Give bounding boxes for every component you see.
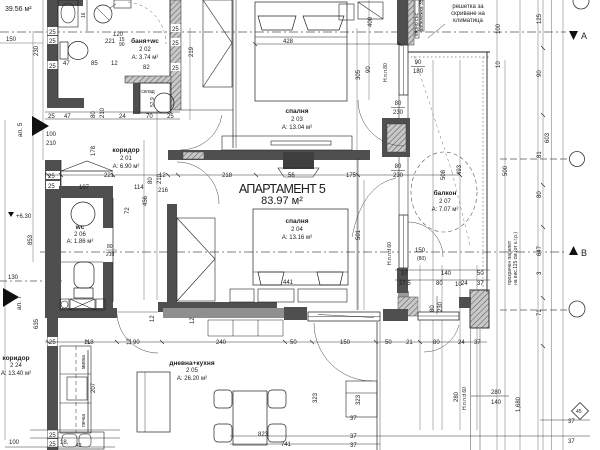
dim row south y344 <box>406 340 481 346</box>
svg-text:24: 24 <box>461 281 468 287</box>
hall outlines <box>60 160 62 186</box>
wall left of wc <box>45 160 61 312</box>
wall below window right <box>397 268 408 293</box>
svg-text:25: 25 <box>172 41 179 47</box>
svg-text:балкон: балкон <box>434 189 457 197</box>
svg-text:климатица: климатица <box>453 18 483 24</box>
kitchen cabinet labels rotated <box>81 355 87 427</box>
svg-text:100: 100 <box>9 440 20 446</box>
storage boiler circle <box>154 93 174 113</box>
svg-text:100: 100 <box>496 23 502 34</box>
svg-text:80: 80 <box>436 281 443 287</box>
svg-text:210: 210 <box>100 107 106 118</box>
svg-text:24: 24 <box>458 340 465 346</box>
svg-text:635: 635 <box>34 318 40 329</box>
svg-text:ап. 7: ап. 7 <box>16 295 23 310</box>
grid line A dashed <box>0 31 566 33</box>
balcony dashed leaders <box>414 56 452 172</box>
bed bedroom1 <box>255 2 347 101</box>
wc top wall <box>59 186 113 198</box>
svg-text:114: 114 <box>134 185 144 191</box>
svg-text:400: 400 <box>368 16 374 27</box>
label hall 224 <box>1 355 31 377</box>
svg-text:80: 80 <box>395 101 402 107</box>
svg-text:АПАРТАМЕНТ 5: АПАРТАМЕНТ 5 <box>239 182 326 196</box>
svg-text:2 01: 2 01 <box>120 156 132 162</box>
svg-text:37: 37 <box>350 434 357 440</box>
label wc <box>67 224 94 245</box>
svg-text:2 24: 2 24 <box>10 363 22 369</box>
east wall gap edge lines <box>399 95 408 215</box>
svg-text:39.56 м²: 39.56 м² <box>5 6 32 13</box>
entrance door leaf triangle <box>61 161 113 171</box>
hatch beside it <box>408 0 414 45</box>
svg-text:90: 90 <box>366 66 372 73</box>
svg-text:218: 218 <box>222 173 233 179</box>
svg-text:A: 3.74 м²: A: 3.74 м² <box>132 55 159 61</box>
svg-text:125: 125 <box>537 13 543 24</box>
chair 2 <box>268 390 286 408</box>
svg-text:501: 501 <box>356 229 362 240</box>
balcony door window bedroom1 <box>399 45 408 95</box>
living room south window <box>308 312 380 321</box>
bedroom1 balcony door arc <box>358 100 404 146</box>
storage room outline <box>140 83 171 113</box>
dim row y188 <box>79 185 169 194</box>
label bedroom2 <box>282 218 312 241</box>
svg-text:80: 80 <box>395 164 402 170</box>
bathroom room outline <box>57 0 59 98</box>
svg-text:wc: wc <box>75 224 85 231</box>
chair 1 <box>214 390 232 408</box>
door label 100/210 <box>46 132 57 147</box>
dark block in bottom wall <box>284 307 307 320</box>
svg-text:280: 280 <box>491 390 502 396</box>
sofa living room <box>137 372 170 432</box>
svg-text:230: 230 <box>438 301 444 312</box>
wardrobe bedroom2 <box>177 218 215 301</box>
tick marks <box>46 42 545 348</box>
svg-text:83.97 м²: 83.97 м² <box>261 195 303 207</box>
bedroom1 right exterior wall top <box>397 0 408 45</box>
svg-text:25: 25 <box>49 39 56 45</box>
svg-text:508: 508 <box>441 169 447 180</box>
wc toilet <box>74 262 94 298</box>
svg-text:1,680: 1,680 <box>516 396 522 412</box>
wc door 80/210 <box>148 173 163 184</box>
svg-text:219: 219 <box>189 46 195 57</box>
svg-text:2 02: 2 02 <box>139 47 151 53</box>
svg-text:21: 21 <box>406 340 413 346</box>
elevation diamond bottom right <box>572 403 589 420</box>
wall left of bathroom <box>47 0 58 98</box>
svg-text:230: 230 <box>34 45 40 56</box>
dining table <box>233 391 267 445</box>
grid bubble top right <box>573 0 589 9</box>
svg-text:71: 71 <box>537 309 543 316</box>
balcony dashed circle <box>411 152 477 232</box>
kitchen counter along top wall living room <box>208 320 283 336</box>
svg-text:A: 1.86 м²: A: 1.86 м² <box>67 239 94 245</box>
svg-text:207: 207 <box>91 382 97 393</box>
svg-text:140: 140 <box>441 271 452 277</box>
TV stand trapezoid bedroom2 <box>278 168 319 177</box>
window label 80/230 top <box>391 101 405 116</box>
grid bubble lower right <box>569 301 585 317</box>
svg-text:323: 323 <box>356 394 362 405</box>
svg-text:603: 603 <box>545 132 551 143</box>
wall notch labels <box>48 27 58 70</box>
living room left edge (kitchen counter line) <box>87 350 89 432</box>
rotated window label 80/230 <box>430 296 444 314</box>
svg-text:56: 56 <box>288 173 295 179</box>
entrance arrow ap.5 <box>17 116 49 137</box>
bedroom2 window door arc into room <box>352 178 396 237</box>
level mark +6.30 <box>8 212 32 220</box>
nightstand right of bed1 <box>339 4 354 20</box>
svg-text:A: 13.16 м²: A: 13.16 м² <box>282 235 312 241</box>
bathroom sink counter <box>58 0 78 27</box>
label bedroom1 <box>282 108 312 131</box>
wall block middle right <box>382 118 410 157</box>
balcony slab top edge <box>408 51 490 53</box>
svg-text:85: 85 <box>91 61 98 67</box>
svg-text:230: 230 <box>393 110 404 116</box>
axis dash to circle 2 <box>500 309 569 311</box>
svg-text:500: 500 <box>503 165 509 176</box>
svg-text:забележка 35: забележка 35 <box>419 0 425 31</box>
svg-text:50: 50 <box>477 271 484 277</box>
bathroom boiler circle <box>94 5 112 23</box>
svg-text:18,: 18, <box>60 440 69 446</box>
wall between bedroom1 and hall (left piece) <box>168 150 204 160</box>
bathroom right wall hatched <box>170 0 181 110</box>
bench under bed2 <box>258 289 294 302</box>
svg-text:+6.30: +6.30 <box>16 214 32 220</box>
bedroom1 outline <box>232 0 234 148</box>
svg-text:2 07: 2 07 <box>439 199 451 205</box>
hall door arc to bedroom2 <box>177 162 219 204</box>
kitchen sink unit bottom <box>58 432 104 449</box>
svg-text:10: 10 <box>496 61 502 68</box>
svg-text:80: 80 <box>107 244 113 250</box>
svg-text:441: 441 <box>283 280 294 286</box>
bedroom2 window to balcony <box>399 215 408 268</box>
svg-text:221: 221 <box>104 173 115 179</box>
svg-text:12: 12 <box>127 338 133 345</box>
marker triangle A <box>569 31 587 41</box>
svg-text:323: 323 <box>313 392 319 403</box>
entrance door arc <box>117 314 158 353</box>
svg-text:25: 25 <box>48 184 55 190</box>
bottom wall of hall left part <box>45 308 117 318</box>
svg-text:на вис.115 см (от к.г.р.): на вис.115 см (от к.г.р.) <box>513 232 519 285</box>
svg-text:баня+wc: баня+wc <box>131 37 159 45</box>
dim row balcony y284 <box>399 281 484 288</box>
svg-text:178: 178 <box>91 145 97 156</box>
storage room left wall <box>133 83 140 114</box>
small rect next to bench <box>230 289 254 302</box>
svg-text:спалня: спалня <box>285 218 308 225</box>
svg-text:12: 12 <box>150 315 156 322</box>
TV block on wall <box>283 152 314 169</box>
bed bedroom2 <box>253 209 348 285</box>
svg-text:72: 72 <box>125 207 131 214</box>
svg-text:16: 16 <box>81 12 87 18</box>
window label 80/230 mid <box>391 164 405 179</box>
svg-text:B: B <box>581 248 587 258</box>
living room top edge under wall <box>117 311 158 313</box>
dim row y116 <box>48 107 174 120</box>
svg-text:100: 100 <box>46 132 57 138</box>
svg-text:12: 12 <box>190 317 196 324</box>
svg-text:37: 37 <box>401 271 408 277</box>
bottom wall of hall right part <box>158 302 277 312</box>
svg-text:80: 80 <box>430 305 436 312</box>
label balcony <box>432 189 459 213</box>
svg-text:81: 81 <box>537 151 543 158</box>
bedroom2 room right edge <box>357 158 359 310</box>
wardrobe bedroom1 <box>203 0 232 87</box>
AC niche walls top right <box>415 0 419 38</box>
svg-text:37: 37 <box>568 439 575 445</box>
svg-text:107: 107 <box>79 185 90 191</box>
bedroom2 bottom wall (light partition) <box>163 308 284 318</box>
svg-text:A: 13.40 м²: A: 13.40 м² <box>1 371 31 377</box>
svg-text:90: 90 <box>415 60 422 66</box>
balcony railing right <box>486 52 488 292</box>
svg-text:25: 25 <box>49 340 56 346</box>
svg-text:823: 823 <box>258 432 269 438</box>
svg-text:50: 50 <box>290 340 297 346</box>
svg-text:216: 216 <box>158 188 169 194</box>
svg-text:175: 175 <box>346 173 357 179</box>
washing machine wc row <box>60 299 105 310</box>
svg-text:80: 80 <box>148 177 154 184</box>
svg-text:221: 221 <box>105 39 116 45</box>
left dash line 130 <box>0 280 62 282</box>
svg-text:(80): (80) <box>417 256 426 262</box>
bathroom toilet <box>60 42 88 60</box>
svg-text:25: 25 <box>49 64 56 70</box>
marker triangle B <box>569 246 587 258</box>
bedroom1 entry door arc <box>180 115 222 150</box>
bathroom small appliance <box>114 0 131 8</box>
svg-text:240: 240 <box>216 340 227 346</box>
grid line B dashed <box>40 251 566 253</box>
svg-text:853: 853 <box>28 234 34 245</box>
svg-text:37: 37 <box>474 340 481 346</box>
svg-text:456: 456 <box>143 195 149 206</box>
bathroom top wall band <box>57 0 83 6</box>
svg-text:647: 647 <box>537 245 543 256</box>
svg-text:склад: склад <box>141 89 154 95</box>
svg-text:коридор: коридор <box>112 147 139 154</box>
kitchen cabinets column <box>60 346 91 433</box>
label apartment main <box>239 182 326 207</box>
south door arc <box>424 325 459 352</box>
svg-text:210: 210 <box>46 141 57 147</box>
svg-text:90: 90 <box>537 70 543 77</box>
svg-text:печка: печка <box>81 414 87 427</box>
svg-text:150: 150 <box>415 248 426 254</box>
dim row balcony y274 <box>401 271 484 277</box>
living room right edge <box>376 322 378 450</box>
living balcony door arc <box>314 323 372 381</box>
hatched insert in that wall <box>183 152 204 159</box>
svg-text:305: 305 <box>356 69 362 80</box>
entrance arrow ap.7 <box>3 288 23 310</box>
bottom-right corner big block <box>470 290 489 328</box>
south window 80/230 <box>418 312 459 320</box>
wc door label 80/210 <box>106 244 117 258</box>
svg-text:150: 150 <box>6 37 17 43</box>
svg-text:140: 140 <box>491 400 502 406</box>
svg-text:решетка за: решетка за <box>452 4 484 10</box>
railing note vertical <box>507 232 519 285</box>
right side dims <box>496 13 551 316</box>
svg-text:80: 80 <box>537 191 543 198</box>
svg-text:мивка: мивка <box>81 355 87 369</box>
label living room <box>169 360 214 382</box>
svg-text:280: 280 <box>454 391 460 402</box>
svg-text:80: 80 <box>433 340 440 346</box>
svg-text:ап. 5: ап. 5 <box>17 122 24 137</box>
svg-text:коридор: коридор <box>2 355 29 362</box>
chair 3 <box>214 424 232 442</box>
svg-text:130: 130 <box>8 275 19 281</box>
svg-text:741: 741 <box>281 442 292 448</box>
top-left dim row y63 <box>63 61 150 71</box>
bedroom2 balcony door arc <box>408 222 443 257</box>
vertical note top right <box>414 0 425 36</box>
bathroom bottom wall hatched <box>125 76 171 83</box>
svg-text:50: 50 <box>385 340 392 346</box>
svg-text:A: A <box>581 31 587 41</box>
svg-text:H.п.п.d 60: H.п.п.d 60 <box>387 242 393 265</box>
svg-text:493: 493 <box>457 164 463 175</box>
AC outdoor unit <box>358 2 383 19</box>
bedroom2 left wall <box>167 204 177 312</box>
svg-text:2 03: 2 03 <box>291 117 303 123</box>
svg-text:25: 25 <box>49 30 56 36</box>
wc right wall <box>103 198 113 228</box>
axis dash to circle 1 <box>500 158 569 160</box>
svg-text:180: 180 <box>413 69 424 75</box>
svg-text:37: 37 <box>477 281 484 287</box>
bottom wall L-cluster <box>398 291 409 299</box>
svg-text:37,5: 37,5 <box>399 281 411 287</box>
svg-text:25: 25 <box>172 66 179 72</box>
svg-text:25: 25 <box>172 27 179 33</box>
label AC grille note <box>451 4 485 24</box>
svg-text:A: 13.04 м²: A: 13.04 м² <box>282 125 312 131</box>
kitchen island living room <box>346 381 377 417</box>
chair 4 <box>268 424 286 442</box>
svg-text:47: 47 <box>63 61 70 67</box>
wall horizontal below bathroom <box>47 98 84 108</box>
svg-text:H.п.п.d 60: H.п.п.d 60 <box>462 387 468 410</box>
svg-text:230: 230 <box>393 173 404 179</box>
facade double line right <box>471 328 481 450</box>
svg-text:90: 90 <box>119 42 125 48</box>
grid bubble mid right <box>570 152 585 167</box>
bottom dims <box>9 416 575 449</box>
svg-text:82: 82 <box>143 65 150 71</box>
svg-text:спалня: спалня <box>285 108 308 115</box>
label hall 201 <box>112 147 139 170</box>
svg-text:42: 42 <box>76 443 82 449</box>
wall between bedroom1 and bedroom2 <box>204 150 370 160</box>
svg-text:A: 26.20 м²: A: 26.20 м² <box>177 376 207 382</box>
svg-text:A: 7.07 м²: A: 7.07 м² <box>432 207 459 213</box>
svg-text:2 05: 2 05 <box>186 368 198 374</box>
svg-text:45: 45 <box>576 409 582 415</box>
svg-text:210: 210 <box>106 252 115 258</box>
svg-text:57,9: 57,9 <box>150 97 156 107</box>
label bathroom <box>131 37 159 61</box>
window label 90/180 <box>411 60 425 75</box>
svg-text:A: 6.90 м²: A: 6.90 м² <box>113 164 140 170</box>
svg-text:2 04: 2 04 <box>291 227 303 233</box>
svg-text:12: 12 <box>111 61 118 67</box>
svg-text:дневна+кухня: дневна+кухня <box>169 360 214 367</box>
TV cabinet bedroom1 <box>222 136 352 150</box>
svg-text:150: 150 <box>340 340 351 346</box>
svg-text:скриване на: скриване на <box>451 11 485 17</box>
dim row y343 <box>84 340 392 346</box>
svg-text:H.п.п.80: H.п.п.80 <box>383 63 389 82</box>
wc boiler circle <box>71 202 95 226</box>
kitchen wall stub bottom-left <box>47 318 58 450</box>
bathroom divider line <box>86 0 88 31</box>
window label 280/140 <box>470 390 509 406</box>
svg-text:90: 90 <box>133 340 140 346</box>
dim row y175 <box>104 173 357 179</box>
bathroom door arc dashed <box>128 2 166 44</box>
svg-text:2 06: 2 06 <box>74 232 86 238</box>
